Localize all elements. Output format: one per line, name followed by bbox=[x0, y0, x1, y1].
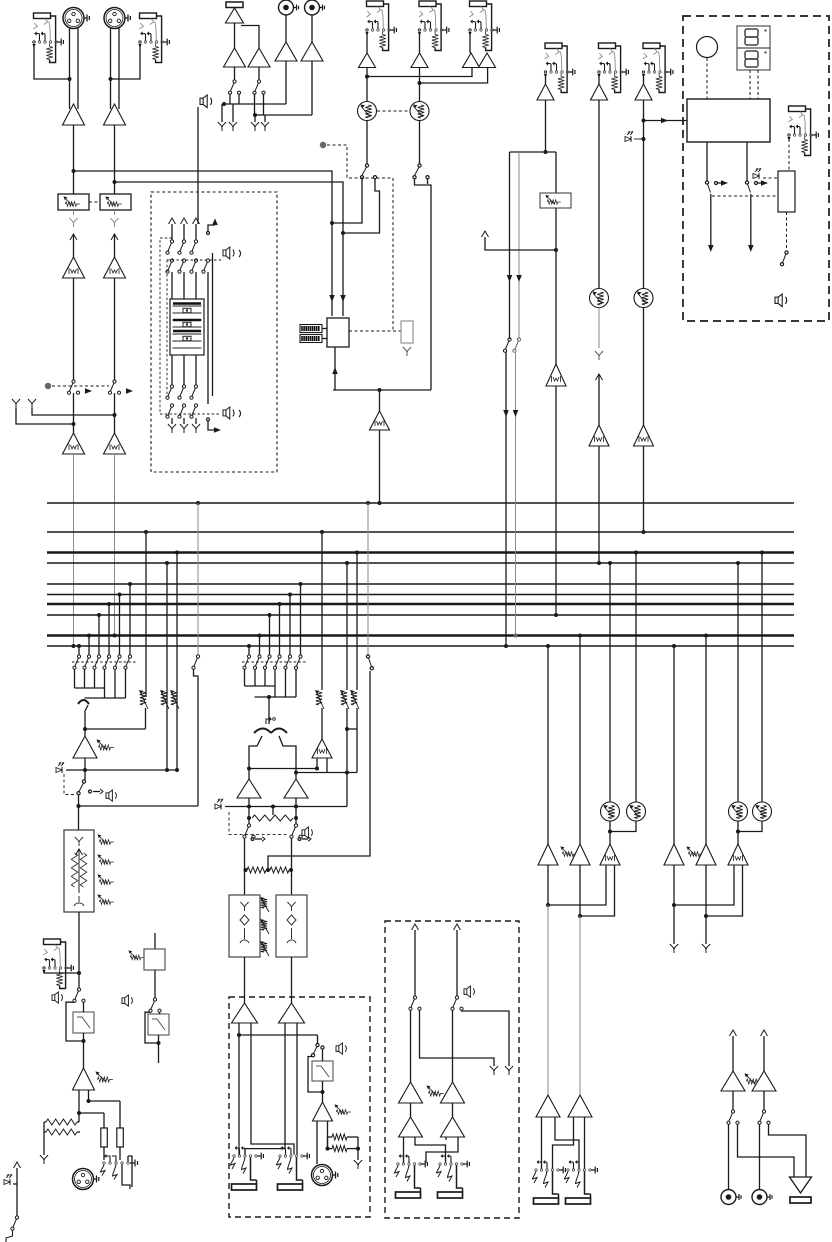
node insert send ch2 bbox=[114, 210, 116, 215]
LED indicator D5 bbox=[4, 1180, 10, 1185]
wire sub rail a cont bbox=[505, 352, 507, 413]
wire A5a out bbox=[367, 68, 472, 77]
wire S15 out bbox=[452, 1010, 454, 1082]
switch S24 aux contact bbox=[89, 790, 92, 793]
arrow tape in bbox=[207, 232, 210, 235]
gray dot PFL bbox=[320, 142, 326, 148]
wire J3 to amp bbox=[366, 32, 368, 53]
wire S1 out bbox=[73, 393, 75, 433]
jack J9 headphone bbox=[787, 106, 818, 156]
switch S24 bbox=[82, 780, 85, 783]
amp A6 bbox=[545, 74, 547, 84]
limiter amp L9 bbox=[312, 739, 332, 758]
insert switch row 3 bbox=[170, 385, 173, 388]
amp T2 bbox=[224, 48, 246, 67]
limiter amp L7c bbox=[589, 425, 609, 446]
pot strip2 bbox=[128, 950, 143, 959]
aux pot rail 347 bbox=[345, 561, 349, 565]
bus line 6 bbox=[47, 594, 794, 596]
switch S17 bbox=[762, 1110, 765, 1113]
power amp dashed box bbox=[229, 997, 370, 1217]
RCA output R4 bbox=[752, 1190, 767, 1205]
level block SRECT bbox=[778, 171, 795, 212]
wire MB2 out bbox=[154, 970, 156, 998]
switch S13 bbox=[316, 1043, 319, 1046]
aux amp Q1 bbox=[399, 1082, 423, 1103]
jack output JO1 bbox=[231, 1146, 264, 1190]
resistor summing b bbox=[270, 867, 289, 873]
wire P3 tail R bbox=[327, 1121, 329, 1149]
wire S15 route bbox=[462, 1010, 510, 1066]
node tape out 3 bbox=[254, 115, 256, 122]
wire dashed group mute bbox=[229, 812, 288, 834]
power amp P2 bbox=[279, 1003, 305, 1023]
mix amp A8g bbox=[570, 844, 590, 865]
wire sub rail b cont bbox=[515, 352, 517, 636]
wire S24 out bbox=[78, 795, 80, 830]
XLR connector X1 bbox=[63, 8, 84, 29]
wire V8 out bbox=[643, 308, 645, 426]
wire mute hook bbox=[6, 1230, 13, 1242]
wire meterbox feed bbox=[644, 120, 688, 122]
aux master dashed box bbox=[385, 921, 519, 1218]
wire A rail R down bbox=[579, 865, 581, 1095]
amp A4 bbox=[411, 53, 428, 68]
insert switch row 2 bbox=[170, 259, 173, 262]
jack output JO6 bbox=[565, 1160, 598, 1204]
resistor R pan bbox=[252, 815, 293, 821]
wire aux to groups bbox=[268, 671, 370, 870]
wire S14 out bbox=[410, 1010, 412, 1082]
wire 2t bus b bbox=[255, 114, 312, 116]
wire S9 out bbox=[194, 670, 199, 807]
wire A10 tails bbox=[553, 1117, 574, 1169]
aux rail 167 bbox=[166, 563, 168, 770]
eq out fork bbox=[74, 896, 84, 906]
wire hpf in bbox=[83, 1002, 85, 1012]
wire dashed J9 bbox=[788, 139, 790, 171]
limiter amp L7 bbox=[600, 844, 620, 865]
mid merge rail 2 bbox=[255, 696, 297, 698]
bus line 4 bbox=[47, 562, 794, 564]
bus pickup 368 bbox=[366, 501, 370, 505]
LED indicator D1 bbox=[625, 137, 631, 142]
insert dashed bus a bbox=[160, 238, 221, 414]
meter bridge dashed box bbox=[683, 16, 829, 321]
wire A4 out bbox=[419, 68, 421, 103]
wire mute rail bbox=[16, 1168, 18, 1216]
resistor RV2 bbox=[117, 1128, 124, 1147]
7seg display digit 1 bbox=[737, 26, 770, 48]
mute switch S2 bbox=[113, 380, 116, 383]
wire S6 stub bbox=[427, 179, 429, 184]
wire J1 to node bbox=[34, 44, 70, 79]
wire monitor line bbox=[333, 389, 431, 391]
wire X1 pair to amp bbox=[69, 28, 71, 109]
power lamp circle bbox=[697, 37, 718, 58]
wire S5 route b bbox=[343, 179, 380, 233]
wire L2 out bbox=[114, 278, 116, 380]
amp T3 bbox=[248, 48, 270, 67]
wire meter links bbox=[322, 328, 327, 330]
wire S10 out bbox=[244, 839, 246, 896]
amp T4 bbox=[275, 42, 297, 61]
jack output JO2 bbox=[277, 1146, 310, 1190]
wire fb a bbox=[89, 1100, 121, 1102]
left group switches bbox=[77, 655, 80, 658]
VCA V7 bbox=[590, 289, 609, 308]
insert switch row 4 bbox=[170, 404, 173, 407]
amp P3 bbox=[313, 1102, 333, 1121]
wire H2 in bbox=[159, 1012, 161, 1014]
wire S6 route a bbox=[415, 179, 432, 390]
eq block E1 bbox=[64, 830, 94, 912]
wire sub rail a bbox=[509, 152, 511, 339]
switch S18 bbox=[705, 181, 708, 184]
hpf box H2 bbox=[148, 1014, 169, 1035]
rail B vca L bbox=[736, 561, 740, 565]
jack input J7 bbox=[597, 43, 628, 93]
mid group merge wires bbox=[244, 670, 246, 687]
wire V1 out bbox=[366, 121, 368, 165]
bus line 10 bbox=[47, 645, 794, 647]
wire REC out L bbox=[706, 142, 708, 181]
mid group bus pickups bbox=[247, 644, 251, 648]
speaker icon SP3 bbox=[223, 407, 234, 419]
rail B right bbox=[704, 634, 708, 638]
wire R1 to amp bbox=[285, 15, 287, 42]
rail A vca L bbox=[608, 561, 612, 565]
wire insert return ch1 bbox=[73, 234, 75, 257]
wire A rail L down bbox=[547, 865, 549, 1095]
jack input J1 (mic 1 line) bbox=[32, 13, 63, 63]
VCA V2 bbox=[410, 102, 429, 121]
amp T1 bbox=[226, 8, 244, 23]
aux pot rail 357 bbox=[355, 551, 359, 555]
insert outputs forks bbox=[171, 418, 173, 424]
amp A3 bbox=[359, 53, 376, 68]
VCA V6 bbox=[753, 802, 772, 821]
wire monitor join bbox=[79, 805, 199, 807]
wire T1 out bbox=[234, 23, 236, 48]
wire pan R bbox=[279, 736, 296, 779]
wire T3 out bbox=[258, 67, 260, 80]
phones jack bar bbox=[790, 1197, 811, 1203]
wire ch1 meter feed bbox=[74, 171, 333, 316]
wire rf common bbox=[43, 1122, 45, 1155]
wire T4 down bbox=[285, 61, 287, 104]
speaker icon SP8 bbox=[52, 992, 62, 1003]
bus line 9 bbox=[47, 634, 794, 637]
LED indicator D3 bbox=[215, 804, 221, 809]
rail A right bbox=[578, 634, 582, 638]
aux pot rail 322 bbox=[320, 530, 324, 534]
wire monitor tap bbox=[239, 1034, 318, 1036]
group amp B1 bbox=[237, 779, 261, 798]
wire to RCA R bbox=[759, 1125, 761, 1190]
wire hpf out bbox=[83, 1033, 85, 1068]
speaker icon SP10 bbox=[106, 790, 116, 801]
insert dashed bus b bbox=[167, 259, 221, 261]
switch S19 bbox=[745, 181, 748, 184]
node direct out ch2 bbox=[28, 399, 36, 408]
switch S16 bbox=[731, 1110, 734, 1113]
wire L1 out bbox=[73, 278, 75, 380]
wire A3 out bbox=[366, 68, 368, 103]
switch S23 bbox=[153, 998, 156, 1001]
LED indicator D4 bbox=[753, 174, 759, 179]
wire M3 tails bbox=[78, 1090, 80, 1122]
wire sub rail b bbox=[518, 152, 520, 339]
mix amp A7g bbox=[538, 844, 558, 865]
wire AM1 out bbox=[84, 758, 86, 780]
jack input J2 (mic 2 line) bbox=[138, 13, 169, 63]
mon amp M1 bbox=[721, 1071, 745, 1091]
LED indicator D2 bbox=[56, 768, 62, 773]
XLR output O1 bbox=[312, 1165, 333, 1186]
wire V7 return bbox=[598, 374, 600, 425]
wire dashed meter link bbox=[349, 330, 401, 332]
insert wrap wires bbox=[207, 272, 209, 404]
mid merge drops bbox=[267, 695, 271, 699]
filter pots bbox=[260, 897, 265, 901]
resistor RF2 bbox=[46, 1129, 77, 1135]
switch S7 bbox=[508, 338, 511, 341]
wire mon in L bbox=[732, 1036, 734, 1071]
wire eq out bbox=[78, 912, 80, 988]
switch S5 bbox=[365, 164, 368, 167]
wire Q4 tails bbox=[445, 1137, 447, 1140]
amp A5b bbox=[479, 53, 496, 68]
switch S11 bbox=[294, 824, 297, 827]
wire L8 tail R bbox=[706, 865, 743, 916]
limiter amp L3 bbox=[63, 433, 85, 454]
mic amp M3 bbox=[73, 1068, 95, 1090]
insert inputs arrows bbox=[171, 224, 173, 240]
jack input J6 bbox=[544, 43, 575, 93]
wire J5 to amp bbox=[469, 32, 471, 53]
wire insert return ch2 bbox=[114, 234, 116, 257]
switch S3 bbox=[233, 80, 236, 83]
bus line 2 bbox=[47, 531, 794, 533]
switch S12 bbox=[366, 655, 369, 658]
wire dashed lamp bbox=[706, 58, 708, 99]
wire dashed gang link GT1-GT2 bbox=[89, 201, 100, 203]
jack input J3 bbox=[365, 1, 396, 51]
wire L6 to bus8 bbox=[555, 386, 557, 615]
wire ch2 meter feed bbox=[115, 182, 344, 316]
wire A5b out bbox=[420, 68, 488, 84]
speaker icon SP1 bbox=[200, 95, 212, 108]
jack input J4 bbox=[418, 1, 449, 51]
limiter amp L2 bbox=[104, 257, 126, 278]
limiter amp L1 bbox=[63, 257, 85, 278]
wire R2 to amp bbox=[311, 15, 313, 42]
node direct out ch1 bbox=[12, 399, 20, 408]
speaker icon SP5 bbox=[336, 1043, 346, 1054]
rail B vca R bbox=[760, 551, 764, 555]
jack output JO5 bbox=[533, 1160, 566, 1204]
wire L7 tail L bbox=[548, 865, 606, 905]
wire L7c to bus4 bbox=[598, 446, 600, 563]
resistor RO1 bbox=[332, 1134, 347, 1140]
bus line 8 bbox=[47, 614, 794, 616]
gain trim box GT2 bbox=[100, 194, 131, 210]
group amp B2 bbox=[284, 779, 308, 798]
mix amp A11 bbox=[664, 844, 684, 865]
wire A6 out bbox=[545, 100, 547, 152]
wire V5 out bbox=[737, 821, 739, 844]
left group merge wires bbox=[74, 670, 76, 689]
wire P3 tail L bbox=[316, 1121, 318, 1164]
limiter amp L5 bbox=[370, 411, 390, 430]
wire H2 out bbox=[158, 1035, 160, 1063]
wire PBX out bbox=[555, 208, 557, 364]
wire REC arrow R bbox=[750, 194, 752, 248]
aux rail 177 bbox=[176, 553, 178, 771]
jack input J8 bbox=[642, 43, 673, 93]
node tape out 4 bbox=[264, 115, 266, 122]
switch S8 bbox=[517, 338, 520, 341]
fader bar T0 bbox=[226, 2, 243, 8]
wire L5 to bus1 bbox=[379, 430, 381, 503]
VCA V1 bbox=[358, 102, 377, 121]
wire H2 loop bbox=[145, 1012, 159, 1043]
7seg display digit 2 bbox=[737, 48, 770, 70]
wire P2 tails bbox=[245, 1023, 285, 1155]
node insert send ch1 bbox=[73, 210, 75, 215]
aux in wire strip2 bbox=[154, 933, 156, 949]
wire T1 branch bbox=[241, 26, 259, 49]
mid group switches bbox=[247, 655, 250, 658]
wire dashed level link bbox=[712, 195, 778, 197]
wire L7 tail R bbox=[580, 865, 615, 916]
wire A8 chain bbox=[643, 100, 645, 289]
wire A9 tails bbox=[541, 1117, 543, 1169]
switch S10 bbox=[247, 824, 250, 827]
aux amp Q4 bbox=[452, 1103, 454, 1117]
speaker icon SP9 bbox=[122, 995, 132, 1006]
insert section dashed box bbox=[151, 192, 277, 472]
wire S11 out bbox=[291, 839, 293, 896]
VCA V5 bbox=[729, 802, 748, 821]
jack J10 insert bbox=[42, 939, 73, 989]
wire meter loop bbox=[334, 347, 336, 390]
wire T2 out bbox=[234, 67, 236, 80]
limiter amp L8 bbox=[728, 844, 748, 865]
resistor RF1 bbox=[46, 1119, 77, 1125]
wire phones R bbox=[769, 1125, 807, 1178]
eq pots bbox=[97, 834, 113, 844]
XLR output O2 bbox=[73, 1169, 94, 1190]
amp T5 bbox=[301, 42, 323, 61]
rail B left bbox=[672, 644, 676, 648]
VCA V4 bbox=[627, 802, 646, 821]
module box MB2 bbox=[144, 949, 165, 970]
wire T5 down bbox=[311, 61, 313, 115]
VCA V8 bbox=[634, 289, 653, 308]
insert wires to fader bbox=[171, 272, 173, 299]
mon amp M2 bbox=[752, 1071, 776, 1091]
wire aux return bbox=[485, 237, 556, 250]
filter block F2 bbox=[276, 895, 307, 957]
wire group pfl bbox=[225, 806, 347, 808]
left merge rail 1 bbox=[75, 687, 105, 689]
switch S9 bbox=[196, 655, 199, 658]
wire L3 to bus bbox=[73, 454, 75, 646]
meter bargraph 2 bbox=[300, 335, 322, 343]
wire S3 contacts bbox=[229, 94, 231, 105]
rail A left bbox=[546, 644, 550, 648]
switch S20 bbox=[785, 251, 788, 254]
wire X2 pair to amp bbox=[110, 28, 112, 109]
wire group feed R bbox=[296, 772, 357, 774]
wire P1 tails bbox=[238, 1023, 240, 1155]
wire B rail R end bbox=[705, 865, 707, 944]
switch S4 bbox=[257, 80, 260, 83]
switch S15 bbox=[455, 996, 458, 999]
left group dashed link bbox=[72, 661, 136, 663]
bus line 7 bbox=[47, 603, 794, 606]
limiter amp L6 bbox=[546, 364, 566, 386]
left group bus pickups bbox=[77, 644, 81, 648]
small module box MB1 bbox=[401, 321, 413, 343]
wire to fork bbox=[357, 1137, 359, 1160]
out amp A9 bbox=[536, 1095, 560, 1117]
XLR connector X2 bbox=[104, 8, 125, 29]
speaker icon SP7 bbox=[775, 294, 787, 307]
wire pfl line bbox=[66, 769, 177, 771]
amp A5a bbox=[463, 53, 480, 68]
wire F2 out bbox=[291, 957, 293, 1003]
sum amp AM1 bbox=[73, 736, 97, 758]
wire Q3 tails bbox=[403, 1137, 405, 1163]
wire aux join y729 bbox=[85, 728, 146, 730]
wire J2 to node bbox=[111, 44, 141, 79]
speaker icon SP4 bbox=[302, 827, 312, 838]
wire dashed 7seg bbox=[749, 70, 751, 99]
aux amp Q2 bbox=[441, 1082, 465, 1103]
wire to L5 bbox=[379, 390, 381, 411]
wire hop arc bbox=[78, 700, 89, 704]
wire dashed level out bbox=[786, 212, 788, 250]
meter block MTR bbox=[327, 318, 349, 347]
wire A7 chain bbox=[598, 100, 600, 289]
wire REC arrow L bbox=[710, 194, 712, 248]
speaker icon SP2 bbox=[223, 247, 234, 259]
wire group feed L bbox=[249, 768, 317, 770]
wire B rail L end bbox=[673, 865, 675, 944]
wire B out bbox=[248, 798, 250, 824]
wire dashed PFL bbox=[327, 145, 393, 331]
fader block FD bbox=[170, 299, 204, 355]
wire A1 out bbox=[73, 125, 75, 194]
out amp A10 bbox=[568, 1095, 592, 1117]
limiter amp L4 bbox=[104, 433, 126, 454]
wire dashed mute bbox=[64, 774, 75, 795]
rail A vca R bbox=[634, 551, 638, 555]
wire ext in R bbox=[456, 930, 458, 996]
wire M2 out bbox=[763, 1091, 765, 1110]
power amp P1 bbox=[232, 1003, 258, 1023]
aux rail 147 bbox=[145, 532, 147, 697]
jack output J11 bbox=[103, 1162, 105, 1164]
switch S6 bbox=[418, 164, 421, 167]
wire phones L bbox=[738, 1125, 795, 1178]
op-amp A2 mic preamp 2 bbox=[104, 104, 126, 125]
switch S14 bbox=[413, 996, 416, 999]
wire L8 tail L bbox=[674, 865, 734, 905]
